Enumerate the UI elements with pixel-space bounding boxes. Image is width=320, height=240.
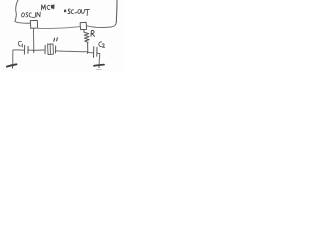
node A junction [33, 50, 35, 52]
node B corner [87, 52, 89, 54]
ground right [94, 65, 104, 66]
crystal label ticks [54, 38, 58, 42]
wire node A to C1 [29, 49, 34, 51]
wire right vertical to top [115, 0, 118, 23]
ground left [7, 64, 17, 66]
label MCO [41, 5, 54, 10]
wire OSC_IN down to node A [32, 28, 34, 52]
capacitor C1 left plate [23, 45, 25, 54]
wire OSC_OUT to top right corner [87, 23, 117, 28]
wire ground drop right [98, 54, 101, 66]
resistor R zigzag [84, 32, 89, 43]
capacitor C1 right plate [27, 46, 29, 53]
pin box OSC_OUT [80, 22, 86, 29]
wire node A to crystal [34, 49, 45, 51]
wire from squiggle to OSC_IN pin [15, 22, 30, 24]
ground right faint mark [97, 68, 102, 70]
pin box OSC_IN [30, 20, 37, 28]
crystal Y1 body [48, 44, 54, 55]
crystal Y1 right plate [55, 46, 57, 53]
wire resistor down to node B [87, 44, 89, 52]
label R [91, 30, 95, 36]
wire C2 to ground drop right [97, 52, 100, 54]
wire crystal to node B [56, 50, 87, 53]
wire C1 to ground drop [13, 49, 24, 51]
capacitor C2 left plate [93, 47, 95, 58]
wire node B to C2 [88, 51, 94, 54]
crystal Y1 left plate [44, 45, 46, 53]
wire MCO squiggle top-left [15, 0, 18, 22]
wire between pins [38, 27, 80, 29]
label C2 [99, 42, 105, 47]
label OSC_IN [21, 12, 40, 17]
wire ground drop left [12, 50, 14, 65]
label C1 [18, 41, 22, 47]
label OSC_OUT [64, 9, 90, 16]
capacitor C2 right plate [96, 47, 98, 56]
wire OSC_OUT pin down to resistor [83, 30, 85, 33]
